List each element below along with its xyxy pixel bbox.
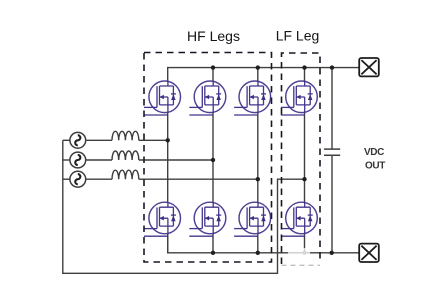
ac source VB <box>70 152 86 168</box>
wire phase A inductor to leg1 <box>139 139 168 141</box>
mosfet Q3 top leg3 <box>234 81 271 116</box>
output terminal top <box>359 58 379 76</box>
wire neutral return path <box>63 140 305 273</box>
wire leg2 top drain vertical <box>212 68 214 82</box>
wire phase B from bus to source <box>63 159 70 161</box>
wire capacitor branch bottom <box>331 155 333 253</box>
wire bottom DC bus right part <box>310 252 359 254</box>
inductor LC <box>112 170 139 179</box>
wire top DC bus <box>168 68 360 82</box>
node bottom bus leg2 <box>211 251 215 255</box>
node phase C leg3 midpoint <box>256 177 260 181</box>
mosfet Q6 bottom leg2 <box>189 202 226 237</box>
wire phase C inductor to leg3 <box>139 178 258 180</box>
ac source VA <box>70 132 86 148</box>
mosfet Q4 top LF leg <box>281 81 318 116</box>
node phase A leg1 midpoint <box>166 138 170 142</box>
mosfet Q5 bottom leg1 <box>144 202 181 237</box>
svg-text:VDC: VDC <box>364 147 384 158</box>
svg-text:LF Leg: LF Leg <box>276 27 320 43</box>
wire bottom DC bus faded segment <box>288 252 310 254</box>
wire bottom DC bus left part <box>168 233 288 253</box>
wire LF leg bottom source faded <box>304 248 306 253</box>
wire phase B inductor to leg2 <box>139 159 213 161</box>
wire phase A from bus to source <box>63 139 70 141</box>
node top bus capacitor <box>330 65 334 69</box>
wire leg3 bottom source vertical <box>257 233 259 253</box>
node bottom bus leg3 <box>256 251 260 255</box>
node top bus LF leg <box>302 65 306 69</box>
mosfet Q8 bottom LF leg <box>281 202 318 237</box>
wire leg2 middle vertical <box>212 112 214 203</box>
wire LF leg top drain vertical <box>304 68 306 82</box>
wire leg3 middle vertical <box>257 112 259 203</box>
ac source VC <box>70 171 86 187</box>
node top bus leg2 <box>211 65 215 69</box>
dashed box LF leg faded bottom edge <box>282 264 321 266</box>
node top bus leg3 <box>256 65 260 69</box>
node bottom bus LF leg faded <box>303 251 307 255</box>
wire leg1 drain-midpoint-drain vertical <box>167 112 169 203</box>
output terminal bottom <box>359 244 379 262</box>
wire LF leg bottom source vertical <box>304 233 306 248</box>
svg-text:HF Legs: HF Legs <box>187 28 240 44</box>
node neutral LF midpoint <box>302 177 306 181</box>
wire leg2 bottom source vertical <box>212 233 214 253</box>
dashed box HF legs <box>144 53 272 263</box>
mosfet Q2 top leg2 <box>189 81 226 116</box>
node phase B leg2 midpoint <box>211 158 215 162</box>
wire capacitor branch top <box>331 68 333 150</box>
wire phase B source to inductor <box>86 159 112 161</box>
mosfet Q1 top leg1 <box>144 81 181 116</box>
wire leg3 top drain vertical <box>257 68 259 82</box>
dashed box LF leg (no bottom) <box>282 53 321 264</box>
wire leg1 bottom source vertical <box>167 233 169 253</box>
inductor LB <box>112 151 139 160</box>
wire LF leg middle vertical <box>304 112 306 203</box>
wire phase C source to inductor <box>86 178 112 180</box>
wire phase A source to inductor <box>86 139 112 141</box>
svg-text:OUT: OUT <box>365 161 385 172</box>
inductor LA <box>112 131 139 140</box>
capacitor C out <box>324 149 340 155</box>
wire phase C from bus to source <box>63 178 70 180</box>
node bottom bus capacitor <box>330 251 334 255</box>
mosfet Q7 bottom leg3 <box>234 202 271 237</box>
